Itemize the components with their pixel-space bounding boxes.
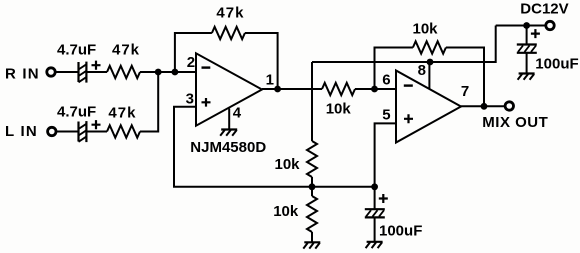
svg-text:6: 6 [382, 72, 390, 89]
wire [496, 25, 545, 27]
wire [86, 71, 107, 73]
capacitor C4 100uF supply [517, 26, 540, 74]
junction [481, 103, 488, 110]
U1A plus sign [202, 98, 211, 107]
svg-text:R IN: R IN [5, 66, 40, 83]
svg-text:L IN: L IN [5, 123, 38, 140]
svg-text:10k: 10k [275, 156, 301, 173]
wire [56, 71, 78, 73]
wire pin4 [228, 109, 230, 130]
output terminal MIX OUT [505, 102, 513, 110]
wire pin8 [428, 62, 430, 89]
svg-text:2: 2 [187, 54, 195, 71]
supply terminal DC12V [546, 21, 554, 29]
op-amp U1B [396, 71, 461, 143]
wire pin1 output [262, 88, 322, 90]
U1A minus sign [202, 66, 211, 68]
wire pin3 bias [174, 107, 375, 187]
svg-text:47k: 47k [108, 105, 136, 122]
resistor R1 47k [107, 66, 140, 78]
svg-text:4.7uF: 4.7uF [57, 42, 96, 59]
ground [518, 74, 535, 80]
svg-text:NJM4580D: NJM4580D [190, 139, 266, 156]
power rail wire [312, 26, 496, 63]
svg-text:DC12V: DC12V [520, 1, 568, 18]
U1B minus sign [404, 84, 413, 86]
svg-text:10k: 10k [413, 21, 439, 38]
U1B plus sign [404, 114, 413, 123]
op-amp U1A [196, 53, 262, 125]
ground [303, 242, 320, 248]
wire divider [311, 62, 313, 141]
resistor R2 47k [107, 125, 140, 137]
wire [355, 88, 396, 90]
resistor R6 10k upper divider [307, 141, 317, 177]
capacitor C2 4.7uF [79, 120, 101, 142]
wire pin7 output [461, 105, 504, 107]
junction divider midpoint [309, 183, 316, 190]
svg-text:100uF: 100uF [535, 56, 578, 73]
capacitor C1 4.7uF [79, 61, 101, 83]
svg-text:MIX OUT: MIX OUT [482, 114, 548, 131]
input terminal R IN [47, 68, 55, 76]
junction bias cap node [371, 183, 378, 190]
wire pin5 [375, 123, 396, 186]
svg-text:7: 7 [461, 83, 469, 100]
junction pin8 node [427, 59, 434, 66]
ground [220, 130, 237, 136]
resistor R5 10k feedback [413, 41, 446, 53]
wire [245, 33, 278, 89]
resistor R3 47k feedback [212, 27, 245, 39]
ground [366, 242, 383, 248]
svg-text:8: 8 [418, 62, 426, 79]
svg-text:47k: 47k [216, 5, 244, 22]
svg-text:5: 5 [382, 107, 390, 124]
svg-text:100uF: 100uF [379, 223, 422, 240]
node A junction [155, 69, 162, 76]
wire feedback2 [375, 48, 413, 90]
wire [140, 71, 196, 73]
wire [446, 48, 484, 107]
svg-text:10k: 10k [326, 101, 352, 118]
svg-text:4: 4 [233, 105, 242, 122]
resistor R7 10k lower divider [307, 196, 317, 232]
wire [140, 72, 158, 132]
svg-text:10k: 10k [273, 203, 299, 220]
svg-text:4.7uF: 4.7uF [57, 104, 96, 121]
capacitor C3 100uF bias [365, 187, 388, 242]
svg-text:3: 3 [186, 91, 194, 108]
wire [57, 131, 78, 133]
wire [311, 177, 313, 196]
resistor R4 10k [322, 83, 355, 95]
wire [175, 33, 212, 72]
input terminal L IN [48, 127, 56, 135]
svg-text:47k: 47k [112, 42, 140, 59]
wire [86, 131, 107, 133]
junction pin6 node [371, 86, 378, 93]
junction supply cap node [523, 22, 530, 29]
wire [311, 232, 313, 242]
junction [274, 86, 281, 93]
svg-text:1: 1 [266, 72, 274, 89]
node B junction [172, 69, 179, 76]
